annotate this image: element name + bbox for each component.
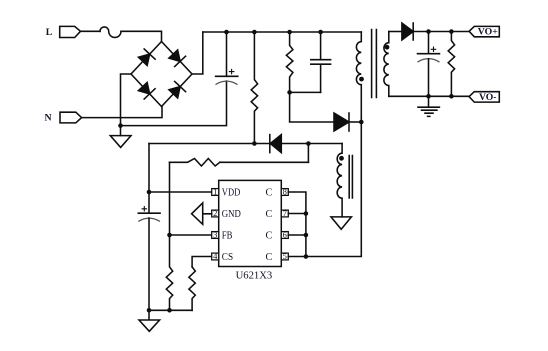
- transformer T1 secondary phase dot: [385, 45, 390, 50]
- diode D2 aux rectifier: [270, 135, 281, 153]
- svg-text:5: 5: [283, 251, 287, 261]
- junction dot load resistor bottom: [449, 94, 454, 99]
- resistor R2 snubber: [286, 32, 293, 92]
- svg-text:C: C: [266, 209, 273, 220]
- svg-text:VDD: VDD: [222, 188, 241, 199]
- capacitor C1 plus sign: [229, 69, 233, 73]
- wire vdd line horizontal: [149, 143, 270, 145]
- resistor R4 FB sense: [170, 159, 309, 167]
- svg-text:C: C: [266, 252, 273, 263]
- junction dot load resistor top: [449, 29, 454, 34]
- IC U1 body: [219, 180, 282, 266]
- resistor R6 FB lower: [166, 235, 172, 310]
- capacitor C1 bulk top lead: [226, 32, 228, 76]
- earth ground output: [418, 96, 439, 116]
- transformer T1 primary winding: [356, 32, 361, 122]
- wire D2 to aux node: [282, 143, 343, 145]
- svg-text:7: 7: [283, 208, 287, 218]
- junction dot aux node: [306, 141, 311, 146]
- transformer T1 aux phase dot: [339, 156, 344, 161]
- bridge diode top-left: [137, 49, 155, 67]
- IC U1 pin3 box: [212, 232, 219, 239]
- terminal VO+: [469, 26, 499, 36]
- wire vdd line left end down to VDD node: [148, 144, 150, 193]
- junction dot rail at C1: [224, 30, 229, 35]
- wire output bottom rail: [389, 95, 469, 97]
- junction dot output cap bottom: [426, 94, 431, 99]
- transformer T1 aux core: [349, 156, 352, 199]
- ground symbol bottom: [139, 310, 160, 331]
- junction dot drain node: [359, 120, 364, 125]
- wire L to fuse: [81, 30, 101, 32]
- wire N to bridge bottom: [82, 107, 162, 118]
- svg-text:CS: CS: [222, 252, 233, 263]
- svg-text:8: 8: [283, 187, 287, 197]
- wire pin5 to drain bus: [288, 256, 306, 258]
- svg-text:4: 4: [213, 251, 218, 261]
- capacitor C3 plus sign: [431, 47, 435, 51]
- wire output diode to VO+: [413, 31, 469, 33]
- junction dot R1 bottom on vdd line: [252, 141, 257, 146]
- svg-text:6: 6: [283, 230, 287, 240]
- resistor R1 startup: [251, 32, 257, 144]
- capacitor C4 vdd: [138, 192, 160, 213]
- junction dot rail at R1: [252, 30, 257, 35]
- wire pin8 to drain bus: [288, 192, 306, 257]
- junction dot rail at R2: [287, 30, 292, 35]
- terminal N: [60, 112, 82, 123]
- capacitor C1 plates: [216, 75, 238, 77]
- wire VDD node to pin1: [149, 191, 212, 193]
- bridge diode top-right: [168, 49, 186, 67]
- resistor R3 load: [448, 32, 454, 97]
- svg-text:VO-: VO-: [479, 92, 497, 103]
- transformer T1 primary phase dot: [359, 77, 364, 82]
- wire drain bus to transformer primary: [306, 122, 361, 257]
- junction dot ground rail at R6: [167, 308, 172, 313]
- wire fuse to bridge top: [121, 31, 162, 41]
- junction dot VDD node: [147, 190, 152, 195]
- bridge diode bottom-right: [168, 81, 186, 99]
- bridge rectifier BR1 diamond: [131, 42, 192, 107]
- wire clamp diode to drain node: [349, 121, 361, 123]
- junction dot snubber node: [287, 90, 292, 95]
- svg-text:C: C: [266, 231, 273, 242]
- junction dot ground rail at C4: [147, 308, 152, 313]
- IC U1 pin5 box: [281, 253, 288, 260]
- wire snubber node to clamp diode: [290, 92, 334, 122]
- ground symbol below bridge: [110, 136, 131, 148]
- IC U1 pin2 box: [212, 210, 219, 217]
- wire ground node to bulk cap bottom: [121, 81, 227, 126]
- junction dot bridge-left ground node: [118, 123, 123, 128]
- IC U1 pin4 box: [212, 253, 219, 260]
- terminal VO-: [469, 92, 499, 102]
- capacitor C4 plus sign: [142, 207, 146, 211]
- resistor R5 CS: [189, 267, 195, 310]
- capacitor C3 output: [418, 32, 440, 54]
- wire pin7 to drain bus: [288, 213, 306, 215]
- IC U1 pin8 box: [281, 189, 288, 196]
- junction dot pin7 bus: [304, 211, 309, 216]
- fuse F1: [100, 27, 121, 37]
- junction dot pin6 bus: [304, 233, 309, 238]
- svg-text:L: L: [46, 27, 53, 38]
- wire bottom ground rail: [149, 309, 192, 311]
- svg-text:C: C: [266, 188, 273, 199]
- wire snubber junction: [290, 91, 321, 93]
- junction dot output cap top: [426, 29, 431, 34]
- svg-text:2: 2: [213, 208, 217, 218]
- svg-text:U621X3: U621X3: [236, 271, 273, 282]
- junction dot pin5 bus: [304, 254, 309, 259]
- IC U1 pin6 box: [281, 232, 288, 239]
- ground symbol aux: [331, 217, 351, 229]
- wire pin6 to drain bus: [288, 234, 306, 236]
- svg-text:VO+: VO+: [478, 27, 498, 38]
- junction dot FB node: [167, 233, 172, 238]
- svg-text:N: N: [45, 113, 52, 124]
- terminal L: [60, 26, 81, 37]
- transformer T1 core: [372, 30, 377, 98]
- wire secondary top to output diode: [389, 31, 402, 33]
- IC U1 pin7 box: [281, 210, 288, 217]
- diode D4 output: [402, 23, 413, 40]
- wire CS pin to R5: [192, 257, 212, 267]
- svg-text:1: 1: [213, 187, 217, 197]
- svg-text:FB: FB: [222, 231, 233, 242]
- wire bridge right corner riser to DC rail: [192, 32, 203, 74]
- wire aux node down to FB resistor: [307, 144, 309, 163]
- capacitor C2 snubber: [311, 32, 331, 92]
- IC U1 pin1 box: [212, 189, 219, 196]
- svg-text:GND: GND: [222, 209, 241, 220]
- wire bridge left corner to ground node: [121, 74, 132, 136]
- diode D3 clamp: [334, 113, 349, 131]
- bridge diode bottom-left: [137, 81, 155, 99]
- transformer T1 secondary winding: [384, 32, 389, 97]
- gnd arrow at pin2: [192, 203, 212, 224]
- wire FB node to pin3: [170, 234, 212, 236]
- transformer T1 aux winding: [337, 144, 342, 217]
- junction dot rail at C2: [318, 30, 323, 35]
- wire R4 left down to FB node: [169, 162, 171, 235]
- wire DC+ rail: [203, 31, 361, 33]
- svg-text:3: 3: [213, 230, 217, 240]
